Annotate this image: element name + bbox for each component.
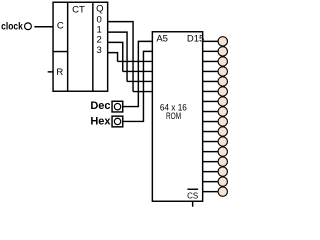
wire A0 stub — [133, 91, 152, 93]
counter U1 outer box — [53, 2, 108, 91]
clock input terminal circle — [25, 23, 32, 30]
counter C/R section divider — [53, 51, 68, 53]
LED indicators D15..D0 — [218, 37, 227, 197]
Dec switch circle — [114, 103, 120, 109]
svg-text:ROM: ROM — [166, 111, 181, 122]
svg-text:D15: D15 — [187, 33, 204, 44]
wire Q3 out — [108, 53, 118, 62]
svg-text:3: 3 — [97, 45, 102, 56]
Hex switch box — [112, 116, 123, 127]
wire Hex to A4 — [123, 51, 153, 121]
wire Q0 out — [108, 22, 133, 92]
svg-text:R: R — [56, 67, 63, 78]
output wires D15..D0 — [203, 41, 218, 191]
wire A1 stub — [127, 80, 152, 82]
CS overline — [187, 188, 198, 190]
wire A2 stub — [123, 70, 153, 72]
wire Q2 out — [108, 42, 123, 71]
svg-text:CT: CT — [72, 4, 85, 15]
svg-text:Q: Q — [96, 4, 103, 15]
wire CS stub down — [192, 201, 194, 207]
wire R input stub — [48, 71, 53, 73]
wire Q1 out — [108, 32, 127, 81]
svg-text:Dec: Dec — [90, 100, 110, 112]
wire clock to C input — [34, 26, 53, 28]
wire Dec to A5 — [123, 41, 153, 106]
counter Q column divider — [92, 2, 94, 91]
svg-text:Hex: Hex — [90, 115, 111, 127]
counter left column divider — [67, 2, 69, 91]
svg-text:clock: clock — [1, 21, 23, 32]
svg-text:CS: CS — [187, 191, 198, 200]
svg-text:A5: A5 — [156, 33, 168, 44]
wire A3 stub — [118, 60, 153, 62]
Hex switch circle — [114, 118, 120, 124]
Dec switch box — [112, 101, 123, 112]
ROM U2 box — [152, 32, 202, 202]
svg-text:C: C — [57, 21, 64, 32]
